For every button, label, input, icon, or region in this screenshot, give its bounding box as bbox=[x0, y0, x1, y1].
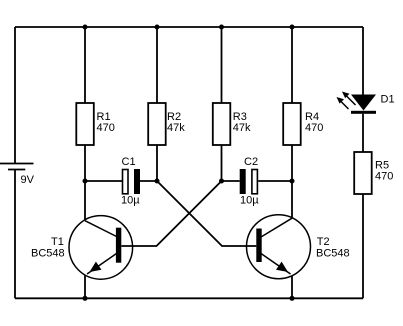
svg-text:47k: 47k bbox=[167, 122, 185, 134]
svg-text:10µ: 10µ bbox=[121, 195, 140, 207]
svg-text:BC548: BC548 bbox=[316, 248, 350, 260]
svg-text:T1: T1 bbox=[51, 236, 64, 248]
svg-text:47k: 47k bbox=[233, 122, 251, 134]
svg-text:C2: C2 bbox=[244, 156, 258, 168]
svg-text:470: 470 bbox=[375, 171, 393, 183]
svg-text:T2: T2 bbox=[317, 236, 330, 248]
svg-text:D1: D1 bbox=[381, 94, 395, 106]
svg-text:BC548: BC548 bbox=[31, 248, 65, 260]
svg-text:9V: 9V bbox=[21, 174, 35, 186]
svg-text:470: 470 bbox=[305, 122, 323, 134]
svg-text:C1: C1 bbox=[122, 156, 136, 168]
svg-text:10µ: 10µ bbox=[240, 195, 259, 207]
svg-text:470: 470 bbox=[97, 122, 115, 134]
